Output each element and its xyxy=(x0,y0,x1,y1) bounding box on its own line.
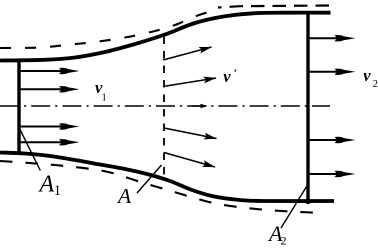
svg-text:v: v xyxy=(223,67,231,86)
svg-text:A: A xyxy=(116,184,132,208)
svg-text:1: 1 xyxy=(102,93,107,104)
svg-text:2: 2 xyxy=(281,234,287,248)
svg-text:2: 2 xyxy=(373,79,378,90)
svg-text:A: A xyxy=(38,172,55,198)
svg-text:1: 1 xyxy=(54,183,61,199)
svg-text:′: ′ xyxy=(234,66,237,80)
svg-text:v: v xyxy=(363,66,371,85)
